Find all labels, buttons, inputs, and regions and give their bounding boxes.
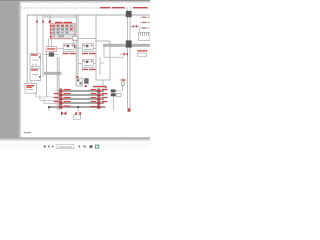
toolbar icon refresh (teal)	[95, 145, 98, 148]
toolbar nav: prev page button	[48, 145, 50, 148]
page left edge line	[19, 1, 22, 138]
bottom toolbar background	[0, 141, 150, 150]
relay C box	[82, 60, 93, 68]
right pin wire 3	[140, 27, 150, 29]
speaker bowtie bottom	[61, 111, 66, 115]
red arrowhead P3	[49, 21, 51, 23]
feeder wires into band left	[36, 92, 57, 104]
noise filter bowtie right	[130, 25, 140, 28]
red pair below junction	[75, 112, 81, 114]
toolbar nav: last page button	[84, 145, 87, 148]
shield bus vertical right	[128, 9, 130, 112]
thin wire y41	[96, 40, 110, 42]
wire C to x96	[93, 63, 96, 65]
dashed fold line	[21, 7, 150, 9]
wires fuse block to label box	[49, 39, 52, 47]
connector ring	[122, 82, 125, 86]
red tick left of band title	[105, 87, 107, 88]
page footer tiny text	[24, 132, 32, 133]
terminal box right of blob2	[116, 93, 121, 96]
left column red cells	[59, 90, 63, 109]
wire rowA left	[57, 48, 64, 50]
second rail wire segment	[44, 16, 77, 18]
riser below blob	[112, 96, 114, 110]
red wire labels left of mid column	[91, 89, 97, 107]
wire fuseblock to junction	[73, 39, 75, 45]
red wire labels right of mid column	[102, 89, 108, 102]
junction box small	[72, 45, 75, 48]
harness wire band (5 wires)	[49, 91, 106, 107]
bus vertical double wire (center-left)	[76, 15, 78, 78]
junction dot left	[48, 106, 50, 108]
bottom divider gradient band	[0, 137, 150, 141]
red label above ring	[121, 79, 126, 80]
wire drop 3	[49, 15, 51, 24]
red tick bus bottom	[128, 108, 130, 111]
wire drop to column	[102, 80, 104, 89]
relay A box	[63, 44, 74, 52]
stub wire y63	[100, 62, 104, 64]
mid connector column bar	[97, 88, 100, 109]
red note text top right A	[100, 7, 125, 8]
vertical wire x96	[95, 15, 97, 80]
wire drop 2b	[46, 51, 48, 97]
wire A to B	[75, 47, 82, 49]
vertical wire x110 upper	[109, 41, 111, 80]
fuse blob 1	[111, 89, 116, 92]
relay B box	[82, 44, 93, 52]
thick band from box2	[44, 72, 62, 74]
left frame wire	[26, 15, 28, 84]
left connector column bar	[59, 88, 62, 109]
wire blob1 to connector ring	[116, 86, 123, 92]
corner wire x104	[104, 47, 124, 58]
red wire labels right of left column	[64, 89, 71, 107]
bus 2 vertical (x58)	[57, 57, 59, 110]
wire into C	[78, 63, 82, 65]
relay B red label	[82, 53, 96, 54]
left relay box 2	[30, 68, 41, 80]
right pin wire 2	[140, 21, 150, 23]
left relay box 1	[30, 53, 41, 66]
shield connector block 2	[126, 40, 132, 47]
wire B to x96	[93, 48, 96, 50]
viewer grey background	[0, 0, 150, 138]
wire drop 2	[42, 15, 44, 77]
coil symbol under label box	[44, 52, 58, 56]
red note text top right B	[133, 7, 148, 8]
wire y38 cross	[77, 37, 96, 39]
stub below junction	[48, 108, 50, 111]
thick trunk edges	[103, 44, 150, 46]
toolbar nav: next page button	[79, 145, 81, 148]
wire box2 down	[30, 81, 32, 84]
drop from junction	[77, 108, 79, 113]
relay box J/B label (red)	[55, 22, 72, 23]
red arrowhead P1	[36, 21, 38, 23]
red wire labels left of left column	[54, 93, 59, 102]
small box below junction	[74, 115, 81, 119]
thick band edge lines	[44, 72, 62, 74]
page top shadow gradient	[20, 0, 150, 4]
relay C red label	[82, 69, 96, 70]
junction dot right	[77, 106, 79, 108]
fuse/relay block	[49, 21, 75, 39]
svg-text:1234/1234: 1234/1234	[58, 145, 73, 149]
toolbar page field	[56, 144, 74, 149]
fuse blob 2	[111, 93, 116, 96]
rail split ticks	[45, 15, 48, 17]
right pin wire 1	[140, 16, 150, 18]
shield connector block 1	[126, 11, 132, 17]
wire box1-box2	[31, 66, 33, 68]
relay label box (red bordered)	[46, 47, 57, 52]
corner wire x100	[99, 57, 101, 75]
thick trunk wire right	[103, 44, 150, 46]
page left edge highlight	[19, 1, 20, 138]
wire drop 1	[36, 15, 38, 54]
noise filter bowtie left of bus	[120, 53, 128, 56]
toolbar icon print	[90, 145, 93, 148]
red label mid right	[138, 50, 148, 57]
red harness title above band	[93, 86, 107, 88]
white schematic page	[20, 1, 150, 138]
viewer top border line	[0, 0, 150, 1]
mid column red cells	[97, 90, 101, 109]
red arrowhead P2	[42, 21, 44, 23]
toolbar nav: prev page button 2	[52, 145, 54, 148]
connector pair above band	[76, 76, 89, 87]
top power rail wire	[27, 14, 150, 16]
relay A red label	[63, 53, 76, 54]
left component box 3	[25, 83, 37, 93]
right pin riser	[139, 28, 141, 33]
wire y80 joining	[96, 79, 110, 81]
fuse block exit box	[72, 36, 78, 40]
toolbar nav: first page button	[44, 145, 46, 148]
multi pin connector box right	[139, 33, 151, 41]
